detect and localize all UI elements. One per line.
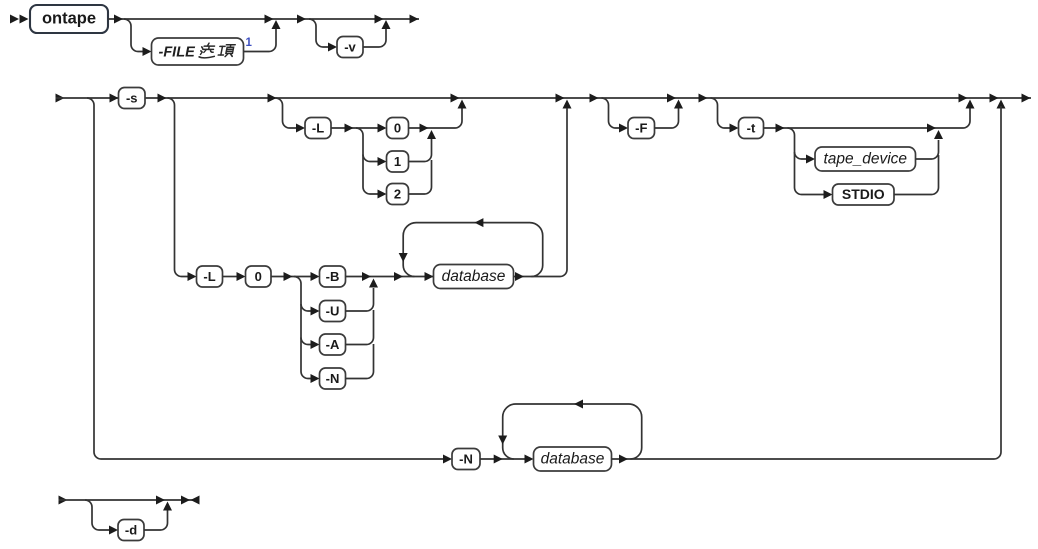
svg-text:-B: -B <box>326 269 340 284</box>
wire row2 main line <box>56 97 1032 99</box>
arrow into lower -L box <box>188 272 197 281</box>
variable box database lower <box>534 447 612 471</box>
arrow after 0 <box>420 124 429 133</box>
keyword box -s <box>119 88 146 109</box>
wire repeat loop around database (upper loop) <box>403 223 543 277</box>
arrow row2 before -t merge <box>959 94 968 103</box>
text -FILE inside box (italic) <box>159 45 197 61</box>
keyword box -F <box>628 118 655 139</box>
arrow into -A <box>311 340 320 349</box>
arrow into -N choice <box>311 374 320 383</box>
svg-text:-N: -N <box>459 452 473 467</box>
arrow into -s box <box>110 94 119 103</box>
svg-text:-F: -F <box>635 121 647 136</box>
wire choice split down to 1 and 2 <box>356 128 378 194</box>
arrow row2 before -F merge <box>667 94 676 103</box>
arrow into STDIO <box>824 190 833 199</box>
wire branch-off to -U <box>301 304 311 311</box>
variable box database upper <box>434 265 514 289</box>
keyword box 0 lower <box>246 266 272 287</box>
svg-text:ontape: ontape <box>42 10 96 28</box>
arrow loop2 back edge pointing left <box>574 400 583 409</box>
arrow merge up after -d <box>163 502 172 511</box>
box -FILE option (optional argument) <box>152 38 244 65</box>
arrow loop entry pointing down <box>399 253 408 262</box>
arrow on lower line at database loop entry <box>394 272 403 281</box>
svg-text:-N: -N <box>326 371 340 386</box>
arrow merge up after -F <box>674 100 683 109</box>
arrow into -U <box>311 307 320 316</box>
svg-text:1: 1 <box>394 154 401 169</box>
wire from -F up to main line <box>655 108 679 128</box>
svg-text:-s: -s <box>126 91 138 106</box>
wire branch-off to tape_device <box>795 152 807 159</box>
svg-text:1: 1 <box>246 37 253 49</box>
arrow into -d box <box>109 526 118 535</box>
svg-text:2: 2 <box>394 187 401 202</box>
wire branch down to -v <box>309 19 329 47</box>
arrow into 2 <box>378 190 387 199</box>
arrow merge up after -FILE <box>272 20 281 29</box>
keyword box -N choice <box>320 368 346 389</box>
start-of-diagram double arrow row 1 <box>10 15 29 24</box>
arrow after upper -L <box>345 124 354 133</box>
arrow into tape_device <box>806 155 815 164</box>
keyword box 1 (level) <box>387 151 409 172</box>
wire branch down to -FILE option <box>124 19 143 52</box>
keyword box -v <box>337 37 363 58</box>
arrow after -s <box>158 94 167 103</box>
arrow merge up -U -A -N choices <box>369 279 378 288</box>
keyword box -L lower <box>197 266 223 287</box>
arrow on -t line before choice merge <box>927 124 936 133</box>
arrow row2 before lower-branch merge <box>556 94 565 103</box>
arrow loop2 entry pointing down <box>498 436 507 445</box>
wire branch down to -t <box>711 98 731 128</box>
wire from -d up to main line <box>144 510 168 530</box>
svg-text:-t: -t <box>747 121 756 136</box>
variable box tape_device <box>815 147 916 171</box>
svg-text:STDIO: STDIO <box>842 186 885 202</box>
wire row1 main line <box>108 18 419 20</box>
arrow after ontape <box>114 15 123 24</box>
arrow row1 after FILE merge <box>297 15 306 24</box>
arrow after database upper <box>515 272 524 281</box>
arrow into database (lower) <box>525 455 534 464</box>
arrow after lower 0 <box>284 272 293 281</box>
glyph CJK xuan (selection) drawn as strokes <box>199 43 217 58</box>
arrow row2 before upper -L group split <box>268 94 277 103</box>
wire lower -L to 0 <box>223 276 238 278</box>
arrow into -v box <box>328 43 337 52</box>
arrow row2 before -N merge <box>990 94 999 103</box>
wire after upper -L to 0 choice <box>331 127 378 129</box>
wire merge of -N choice into -B line <box>346 344 374 379</box>
svg-text:-d: -d <box>125 523 137 538</box>
keyword box ontape <box>30 5 108 33</box>
arrow into upper -L box <box>296 124 305 133</box>
arrow into 1 <box>378 157 387 166</box>
keyword box -A <box>320 334 346 355</box>
svg-text:tape_device: tape_device <box>823 151 907 168</box>
keyword box 2 (level) <box>387 184 409 205</box>
svg-text:-U: -U <box>326 304 340 319</box>
arrow row2 before -L group merge point <box>451 94 460 103</box>
wire after database lower to right riser <box>612 106 1002 459</box>
wire from -v box up to main line <box>363 29 386 47</box>
wire after lower 0 through -B split <box>271 276 311 278</box>
glyph CJK xiang (item) drawn as strokes <box>218 45 235 57</box>
svg-text:database: database <box>442 268 506 285</box>
wire after STDIO to choice merge <box>894 155 939 195</box>
wire branch-off to choice 1 <box>363 155 378 162</box>
arrow start row 3 <box>59 496 68 505</box>
keyword box -B <box>320 266 346 287</box>
wire merge of -U into -B line <box>346 288 374 311</box>
arrow into 0 <box>378 124 387 133</box>
keyword box -L upper <box>305 118 331 139</box>
svg-text:0: 0 <box>394 121 401 136</box>
arrow row3 before end <box>156 496 165 505</box>
arrow merge up of lower -L 0 branch <box>563 100 572 109</box>
arrow into -B <box>311 272 320 281</box>
arrow after -t <box>776 124 785 133</box>
wire choice split down to tape_device and STDIO <box>788 128 825 195</box>
arrow row1 line end (continued) <box>410 15 419 24</box>
keyword box -t <box>739 118 764 139</box>
keyword box 0 (level) <box>387 118 409 139</box>
arrow merge up of -t group into main <box>966 100 975 109</box>
arrow at loop2 entry <box>494 455 503 464</box>
arrow into -FILE option box <box>143 47 152 56</box>
svg-text:-FILE: -FILE <box>159 45 197 61</box>
wire long branch down-left to -N alternative row <box>87 98 444 459</box>
svg-text:-L: -L <box>203 269 215 284</box>
wire merge of 1 into 0 line <box>409 139 432 162</box>
arrow into -F box <box>619 124 628 133</box>
svg-text:database: database <box>541 451 605 468</box>
wire branch-off to -A <box>301 338 311 345</box>
arrow merge up of -N alternative into main <box>997 100 1006 109</box>
svg-text:0: 0 <box>255 269 262 284</box>
wire -t option line to merge and up to main <box>764 108 971 128</box>
wire after database upper <box>514 108 568 277</box>
arrow row2 after lower-branch merge <box>590 94 599 103</box>
keyword box STDIO <box>833 184 895 205</box>
end-of-diagram marker arrows <box>181 496 200 505</box>
arrow after database lower <box>619 455 628 464</box>
arrow into database (upper) <box>425 272 434 281</box>
wire branch down to -F <box>602 98 620 128</box>
wire choice split down to -U -A -N <box>294 277 311 379</box>
wire after -N to database <box>480 458 525 460</box>
arrow merge up of -L group into main <box>458 100 467 109</box>
wire from -FILE box up to main line <box>244 29 277 52</box>
arrow merge up after -v <box>382 20 391 29</box>
wire merge of 2 into 0 line <box>409 160 432 194</box>
arrow merge up tape choices <box>934 130 943 139</box>
keyword box -N main <box>452 449 480 470</box>
svg-text:-v: -v <box>344 40 356 55</box>
arrow start row 2 <box>56 94 65 103</box>
arrow loop back edge pointing left <box>474 218 483 227</box>
wire branch down to -d <box>85 500 110 530</box>
wire branch down to lower -L 0 level row <box>168 98 189 277</box>
wire lower line -B to database loop <box>346 276 434 278</box>
keyword box -U <box>320 301 346 322</box>
wire after 0 up to main line <box>409 108 463 128</box>
arrow row2 after -F merge <box>699 94 708 103</box>
arrow row1 before FILE merge <box>265 15 274 24</box>
arrow row2 line end (continued) <box>1022 94 1031 103</box>
footnote reference 1 (blue superscript) <box>246 37 253 49</box>
wire row3 main line <box>59 499 200 501</box>
keyword box -d <box>118 520 144 541</box>
arrow into -t box <box>730 124 739 133</box>
arrow into -N box (alternative row) <box>443 455 452 464</box>
arrow on lower line before choice merge <box>362 272 371 281</box>
svg-text:-L: -L <box>312 121 324 136</box>
wire merge of -A into -B line <box>346 310 374 345</box>
wire after tape_device to choice merge <box>916 140 939 159</box>
wire repeat loop around database (lower loop) <box>503 404 642 459</box>
wire branch down to upper -L <box>276 98 297 128</box>
svg-text:-A: -A <box>326 337 340 352</box>
arrow row1 before -v merge <box>375 15 384 24</box>
arrow merge up of 1 2 choices <box>427 130 436 139</box>
arrow into lower 0 <box>237 272 246 281</box>
